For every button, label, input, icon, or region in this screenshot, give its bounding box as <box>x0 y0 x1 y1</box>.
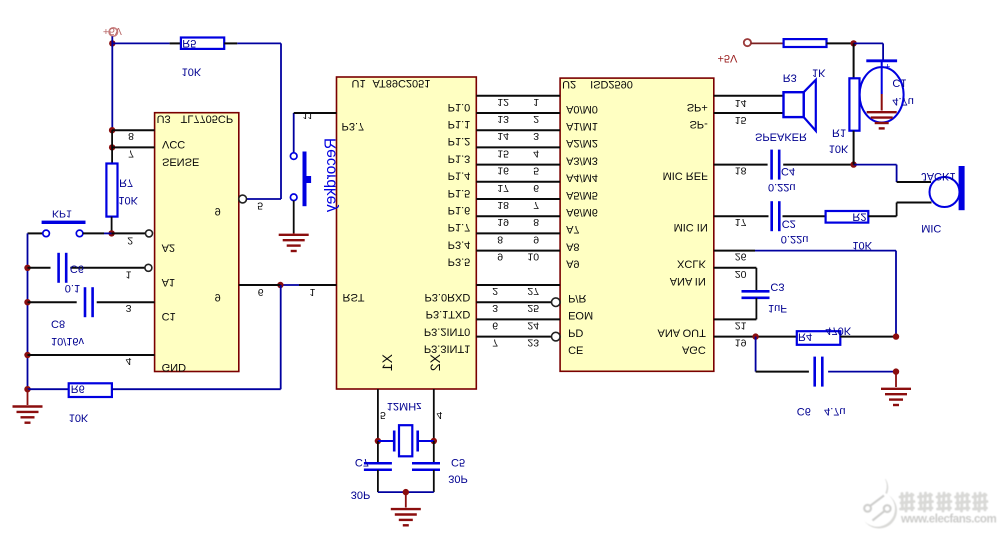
svg-text:TL7705CP: TL7705CP <box>181 113 234 125</box>
svg-text:9: 9 <box>497 251 503 263</box>
svg-text:2: 2 <box>492 285 498 297</box>
svg-text:U1: U1 <box>352 77 366 89</box>
svg-text:9: 9 <box>533 233 539 245</box>
svg-text:P/R: P/R <box>568 292 586 304</box>
svg-text:18: 18 <box>735 165 747 177</box>
svg-text:C3: C3 <box>770 280 784 292</box>
svg-text:A2: A2 <box>162 241 175 253</box>
svg-text:18: 18 <box>497 199 509 211</box>
svg-text:10K: 10K <box>118 194 138 206</box>
svg-text:1: 1 <box>310 286 316 298</box>
svg-text:P3.5: P3.5 <box>448 256 471 268</box>
svg-text:3: 3 <box>533 130 539 142</box>
svg-text:+5V: +5V <box>103 25 122 37</box>
svg-text:17: 17 <box>735 216 747 228</box>
svg-text:7: 7 <box>533 199 539 211</box>
svg-text:23: 23 <box>527 337 539 349</box>
svg-text:19: 19 <box>735 337 747 349</box>
svg-text:4: 4 <box>126 355 132 367</box>
svg-text:24: 24 <box>527 319 539 331</box>
svg-text:2: 2 <box>533 113 539 125</box>
svg-text:C2: C2 <box>782 218 796 230</box>
svg-text:12: 12 <box>497 96 509 108</box>
svg-text:SENSE: SENSE <box>162 155 199 167</box>
svg-text:1K: 1K <box>812 67 826 79</box>
svg-text:JACK1: JACK1 <box>921 170 955 182</box>
svg-text:P1.1: P1.1 <box>448 118 471 130</box>
svg-text:AGC: AGC <box>682 344 706 356</box>
svg-text:C7: C7 <box>355 456 369 468</box>
svg-text:KP1: KP1 <box>52 208 72 220</box>
svg-text:+5V: +5V <box>718 52 739 64</box>
svg-text:P1.3: P1.3 <box>448 152 471 164</box>
svg-text:10: 10 <box>527 251 539 263</box>
svg-text:P1.4: P1.4 <box>448 170 471 182</box>
svg-text:25: 25 <box>527 302 539 314</box>
svg-text:R7: R7 <box>119 176 133 188</box>
svg-text:6: 6 <box>533 182 539 194</box>
svg-text:26: 26 <box>735 251 747 263</box>
svg-text:A5/M5: A5/M5 <box>566 189 598 201</box>
svg-text:6: 6 <box>258 286 264 298</box>
svg-text:4: 4 <box>437 409 443 421</box>
svg-text:10K: 10K <box>182 66 202 78</box>
svg-text:A4/M4: A4/M4 <box>566 172 598 184</box>
svg-text:P3.0RXD: P3.0RXD <box>424 291 470 303</box>
svg-text:C4: C4 <box>781 165 795 177</box>
svg-text:3: 3 <box>126 302 132 314</box>
svg-text:P1.2: P1.2 <box>448 135 471 147</box>
svg-text:A8: A8 <box>566 240 579 252</box>
svg-text:C5: C5 <box>451 456 465 468</box>
svg-text:10/16v: 10/16v <box>51 335 85 347</box>
svg-text:19: 19 <box>497 216 509 228</box>
svg-text:ANA OUT: ANA OUT <box>658 326 707 338</box>
svg-text:R5: R5 <box>182 37 196 49</box>
svg-text:MIC: MIC <box>921 222 941 234</box>
svg-text:5: 5 <box>257 200 263 212</box>
svg-text:X1: X1 <box>379 354 395 371</box>
svg-text:3: 3 <box>492 302 498 314</box>
svg-text:2: 2 <box>127 235 133 247</box>
svg-text:20: 20 <box>735 268 747 280</box>
svg-text:4.7u: 4.7u <box>892 95 913 107</box>
svg-text:14: 14 <box>497 130 509 142</box>
svg-text:10K: 10K <box>829 143 849 155</box>
svg-text:P1.5: P1.5 <box>448 187 471 199</box>
svg-text:5: 5 <box>533 165 539 177</box>
svg-text:SPEAKER: SPEAKER <box>755 131 807 143</box>
svg-text:www.elecfans.com: www.elecfans.com <box>900 514 996 526</box>
svg-text:21: 21 <box>735 319 747 331</box>
svg-text:0.22u: 0.22u <box>768 181 796 193</box>
svg-text:A0/M0: A0/M0 <box>566 103 598 115</box>
svg-text:AT89C2051: AT89C2051 <box>373 77 431 89</box>
svg-text:0.22u: 0.22u <box>781 233 809 245</box>
svg-text:P3.3INT1: P3.3INT1 <box>424 343 470 355</box>
svg-text:R2: R2 <box>852 211 866 223</box>
svg-text:A3/M3: A3/M3 <box>566 154 598 166</box>
svg-text:8: 8 <box>497 233 503 245</box>
svg-text:14: 14 <box>735 97 747 109</box>
svg-text:1uF: 1uF <box>768 302 787 314</box>
svg-text:P1.7: P1.7 <box>448 221 471 233</box>
svg-text:4.7u: 4.7u <box>824 405 845 417</box>
svg-text:P3.4: P3.4 <box>448 238 471 250</box>
svg-text:6: 6 <box>492 319 498 331</box>
svg-text:U2: U2 <box>562 78 576 90</box>
svg-text:A1: A1 <box>162 276 175 288</box>
svg-text:GND: GND <box>162 361 187 373</box>
svg-text:VCC: VCC <box>162 138 185 150</box>
svg-text:1: 1 <box>126 268 132 280</box>
svg-text:R4: R4 <box>798 331 812 343</box>
svg-text:15: 15 <box>735 114 747 126</box>
svg-text:A9: A9 <box>566 258 579 270</box>
svg-text:A6/M6: A6/M6 <box>566 206 598 218</box>
svg-text:A7: A7 <box>566 223 579 235</box>
svg-text:A1/M1: A1/M1 <box>566 120 598 132</box>
svg-text:MIC REF: MIC REF <box>663 170 709 182</box>
svg-text:C1: C1 <box>892 76 906 88</box>
svg-text:P1.6: P1.6 <box>448 204 471 216</box>
svg-text:5: 5 <box>380 409 386 421</box>
svg-text:A2/M2: A2/M2 <box>566 137 598 149</box>
svg-text:7: 7 <box>128 147 134 159</box>
svg-text:CE: CE <box>568 344 583 356</box>
svg-text:SP+: SP+ <box>687 101 708 113</box>
svg-text:R3: R3 <box>783 72 797 84</box>
svg-text:13: 13 <box>497 113 509 125</box>
svg-text:P1.0: P1.0 <box>448 101 471 113</box>
svg-text:EOM: EOM <box>568 309 593 321</box>
svg-text:30P: 30P <box>448 472 468 484</box>
svg-text:SP-: SP- <box>689 118 708 130</box>
svg-text:27: 27 <box>527 285 539 297</box>
svg-text:7: 7 <box>492 337 498 349</box>
svg-text:+: + <box>885 60 891 71</box>
svg-text:30P: 30P <box>351 489 371 501</box>
svg-text:11: 11 <box>303 109 314 121</box>
svg-text:10K: 10K <box>69 412 89 424</box>
svg-text:U3: U3 <box>157 113 171 125</box>
svg-text:17: 17 <box>497 182 509 194</box>
svg-text:C6: C6 <box>70 263 84 275</box>
svg-text:9: 9 <box>215 205 221 217</box>
svg-text:ANA IN: ANA IN <box>670 275 706 287</box>
svg-text:ISD2590: ISD2590 <box>590 78 633 90</box>
svg-text:10K: 10K <box>852 239 872 251</box>
svg-text:P3.7: P3.7 <box>342 120 365 132</box>
svg-text:R1: R1 <box>832 127 846 139</box>
svg-text:Recordkey: Recordkey <box>323 138 340 212</box>
svg-text:C6: C6 <box>797 405 811 417</box>
svg-text:1: 1 <box>533 96 539 108</box>
svg-text:P3.2INT0: P3.2INT0 <box>424 325 470 337</box>
svg-text:R6: R6 <box>71 382 85 394</box>
svg-text:4: 4 <box>533 147 539 159</box>
svg-text:X2: X2 <box>427 354 443 371</box>
svg-text:MIC IN: MIC IN <box>674 221 708 233</box>
svg-text:C1: C1 <box>162 310 176 322</box>
svg-text:12MHz: 12MHz <box>387 400 422 412</box>
svg-text:16: 16 <box>497 165 509 177</box>
svg-text:0.1: 0.1 <box>65 282 80 294</box>
svg-text:C8: C8 <box>51 318 65 330</box>
svg-text:15: 15 <box>497 147 509 159</box>
svg-text:P3.1TXD: P3.1TXD <box>426 308 471 320</box>
svg-text:8: 8 <box>533 216 539 228</box>
svg-text:9: 9 <box>215 291 221 303</box>
svg-text:8: 8 <box>128 130 134 142</box>
svg-text:PD: PD <box>568 326 583 338</box>
svg-text:RST: RST <box>343 291 365 303</box>
svg-text:470K: 470K <box>825 324 851 336</box>
svg-text:XCLK: XCLK <box>677 258 706 270</box>
